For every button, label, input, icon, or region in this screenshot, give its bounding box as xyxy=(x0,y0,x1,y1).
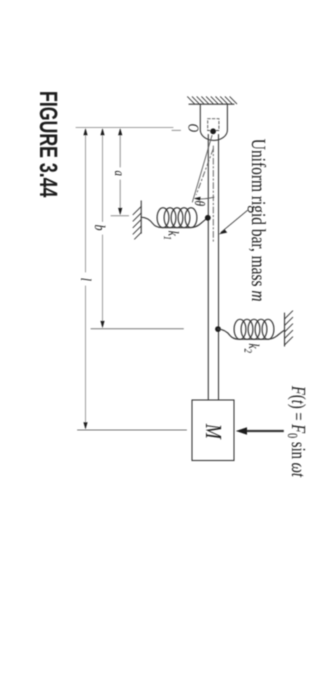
dashed pin housing square xyxy=(208,119,219,131)
extension line at k1 level xyxy=(111,215,129,217)
extension line at mass/force level xyxy=(78,429,187,431)
extension line at k2 level xyxy=(91,328,183,330)
pivot bracket (clevis) xyxy=(200,104,227,140)
svg-text:Uniform rigid bar, mass m: Uniform rigid bar, mass m xyxy=(247,139,269,302)
ceiling support hatching xyxy=(188,97,237,104)
wall support for k2 xyxy=(284,313,286,346)
leader to O xyxy=(172,129,181,131)
bar centerline (dash-dot, equilibrium) xyxy=(212,146,214,244)
wall support for k1 xyxy=(140,201,142,233)
svg-text:θ: θ xyxy=(191,201,207,207)
mass M block xyxy=(192,400,234,461)
angle arc for theta xyxy=(196,197,214,199)
svg-text:b: b xyxy=(91,225,107,231)
ceiling line xyxy=(189,103,234,105)
pivot pin at O xyxy=(210,128,216,134)
dimension line l xyxy=(85,134,87,425)
leader arrow from bar label to bar xyxy=(221,210,248,232)
spring k2 xyxy=(218,319,285,339)
attachment node of k2 on bar xyxy=(215,326,221,332)
spring k1 xyxy=(141,208,207,228)
rigid bar (right edge) xyxy=(218,135,220,401)
svg-text:a: a xyxy=(111,170,126,175)
deflected centerline (dash-dot, slanted) xyxy=(196,149,213,195)
svg-text:k1: k1 xyxy=(161,231,180,240)
k2 wall hatching xyxy=(285,311,293,345)
k1 wall hatching xyxy=(133,207,141,240)
svg-text:M: M xyxy=(201,423,226,440)
dimension line a xyxy=(119,134,121,211)
svg-text:k2: k2 xyxy=(241,343,260,353)
svg-text:l: l xyxy=(77,278,93,281)
svg-text:FIGURE 3.44: FIGURE 3.44 xyxy=(34,91,62,197)
rigid bar (left edge) xyxy=(207,135,209,401)
dimension line b xyxy=(102,134,104,324)
deflected bar position line (solid, slanted) xyxy=(192,136,212,203)
attachment node of k1 on bar xyxy=(205,215,211,221)
svg-text:F(t) = F0 sin ωt: F(t) = F0 sin ωt xyxy=(284,385,309,477)
angle arc arrowhead xyxy=(194,197,201,201)
extension line at pivot level xyxy=(76,127,173,129)
force arrow F(t) xyxy=(245,430,284,432)
svg-text:O: O xyxy=(185,124,201,133)
